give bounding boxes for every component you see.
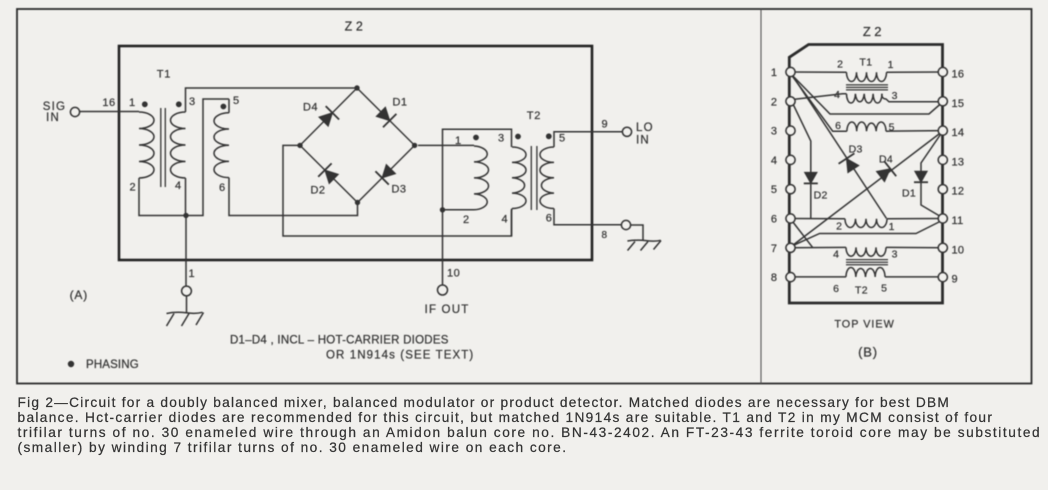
svg-text:1: 1 [455,135,461,147]
svg-text:4: 4 [501,214,507,226]
svg-text:(B): (B) [858,345,878,360]
svg-text:4: 4 [834,89,840,101]
svg-text:D1: D1 [392,97,407,109]
svg-text:OR 1N914s (SEE TEXT): OR 1N914s (SEE TEXT) [326,350,474,362]
svg-text:3: 3 [892,249,898,261]
svg-text:D4: D4 [879,153,893,165]
svg-text:16: 16 [952,69,965,81]
svg-text:D3: D3 [391,184,406,196]
svg-text:3: 3 [498,133,504,145]
svg-text:T2: T2 [855,285,868,297]
svg-text:D4: D4 [303,102,318,114]
svg-text:3: 3 [189,96,195,108]
svg-text:6: 6 [219,182,225,194]
svg-text:6: 6 [546,213,552,225]
svg-text:2: 2 [771,96,777,108]
svg-text:15: 15 [952,98,965,110]
svg-text:IN: IN [46,112,60,124]
svg-text:12: 12 [952,186,965,198]
svg-text:6: 6 [833,283,839,295]
svg-text:1: 1 [889,221,895,233]
svg-text:16: 16 [102,97,115,109]
svg-text:4: 4 [771,155,777,167]
svg-text:IN: IN [636,135,650,147]
svg-text:Z2: Z2 [345,20,367,34]
svg-text:10: 10 [447,268,460,280]
svg-text:2: 2 [129,182,135,194]
svg-text:4: 4 [175,180,181,192]
svg-text:9: 9 [602,119,608,131]
svg-text:6: 6 [771,214,777,226]
svg-text:D1–D4 , INCL – HOT-CARRIER DIO: D1–D4 , INCL – HOT-CARRIER DIODES [230,335,449,347]
svg-text:5: 5 [559,133,565,145]
svg-text:7: 7 [771,243,777,255]
svg-text:D2: D2 [310,185,325,197]
svg-text:2: 2 [837,59,843,71]
svg-text:Z2: Z2 [863,24,885,39]
svg-text:(A): (A) [70,288,88,302]
svg-text:8: 8 [771,272,777,284]
svg-text:11: 11 [952,215,964,227]
svg-text:5: 5 [881,283,887,295]
svg-text:2: 2 [836,221,842,233]
svg-text:1: 1 [771,67,777,79]
svg-text:IF OUT: IF OUT [425,304,470,316]
svg-text:14: 14 [952,127,965,139]
svg-text:5: 5 [233,95,239,107]
svg-text:3: 3 [771,126,777,138]
svg-text:PHASING: PHASING [86,359,139,371]
svg-text:1: 1 [129,97,135,109]
svg-text:T1: T1 [859,57,872,69]
svg-text:T2: T2 [527,110,541,122]
svg-text:10: 10 [952,244,965,256]
svg-text:LO: LO [636,122,654,134]
svg-text:T1: T1 [157,69,171,81]
svg-text:8: 8 [602,230,608,241]
svg-text:D3: D3 [849,143,863,155]
svg-text:D1: D1 [902,188,916,200]
svg-text:2: 2 [463,214,469,226]
svg-text:5: 5 [889,122,895,134]
svg-text:D2: D2 [814,190,828,202]
svg-text:13: 13 [952,156,965,168]
svg-text:6: 6 [835,120,841,132]
svg-text:9: 9 [952,274,958,286]
svg-text:TOP VIEW: TOP VIEW [834,319,894,331]
svg-text:4: 4 [833,249,839,261]
svg-text:1: 1 [189,268,196,280]
svg-text:5: 5 [771,184,777,196]
svg-text:1: 1 [888,59,894,71]
svg-text:3: 3 [892,90,898,102]
